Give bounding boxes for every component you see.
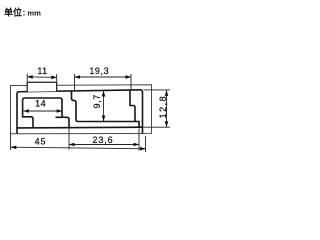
dimension 12,8 line with arrows <box>166 90 168 126</box>
dimension 23,6 line with arrows <box>69 144 139 146</box>
dimension 11 extension lines <box>27 74 57 82</box>
dimension 14 line with arrows <box>23 110 62 112</box>
dimension 9,7 line with arrows <box>103 91 105 121</box>
svg-text:单位:mm: 单位:mm <box>4 7 41 18</box>
dimension 45 extension lines <box>11 134 146 153</box>
dimension 19,3 extension lines <box>75 74 132 91</box>
svg-text:9,7: 9,7 <box>92 94 102 108</box>
svg-text:12,8: 12,8 <box>158 95 168 119</box>
internal floor rib line <box>17 126 143 129</box>
dimension 23,6 extension lines <box>69 129 139 151</box>
svg-text:19,3: 19,3 <box>89 66 109 76</box>
outer envelope thin rectangle <box>11 85 152 134</box>
slot 14 cavity outline with support legs <box>23 98 69 128</box>
slot bottom-right shelf stub <box>56 116 63 118</box>
dimension 19,3 line with arrows <box>75 76 132 78</box>
svg-text:11: 11 <box>37 66 47 76</box>
svg-text:45: 45 <box>35 136 47 146</box>
dimension 11 line with arrows <box>27 76 57 79</box>
top tab (raised boss) <box>27 82 57 91</box>
dimension 45 line with arrows <box>11 147 146 149</box>
groove 19.3 x 9.7 cavity <box>72 91 140 128</box>
dimension 12,8 extension lines <box>144 90 171 127</box>
profile body outline (thick) <box>17 90 143 134</box>
svg-text:23,6: 23,6 <box>92 135 113 145</box>
svg-text:14: 14 <box>35 99 46 109</box>
